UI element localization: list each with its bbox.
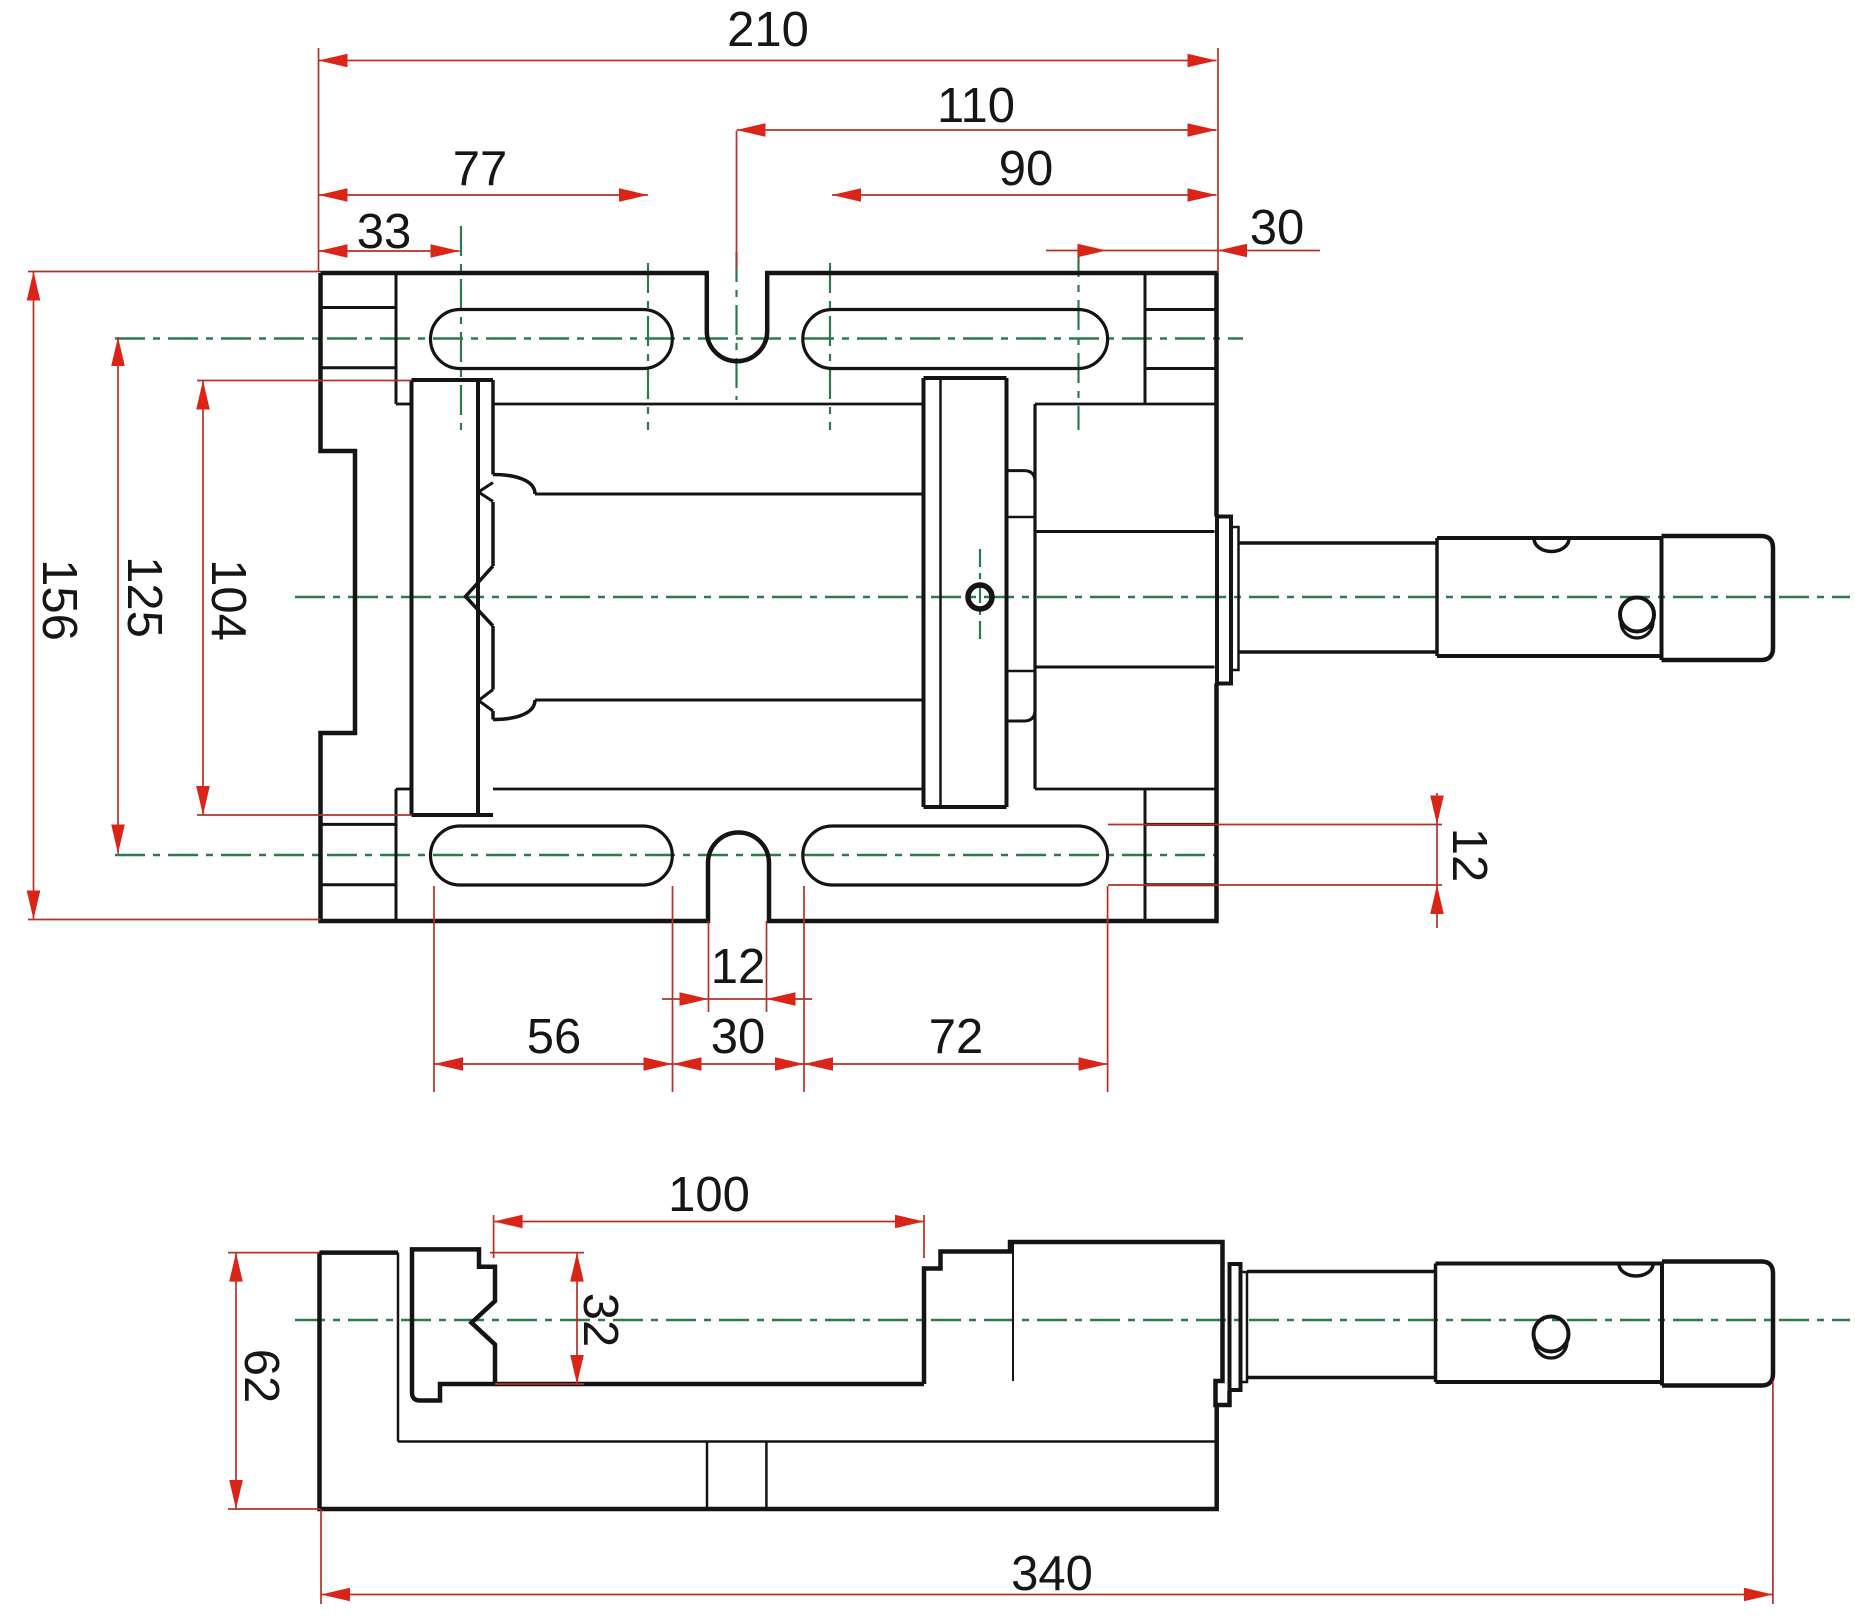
svg-text:30: 30 [1250, 201, 1305, 255]
svg-text:100: 100 [668, 1168, 750, 1222]
svg-text:210: 210 [727, 3, 809, 57]
svg-text:110: 110 [937, 79, 1015, 133]
svg-text:90: 90 [999, 142, 1054, 196]
svg-text:72: 72 [929, 1010, 984, 1064]
svg-text:33: 33 [357, 205, 412, 259]
svg-text:104: 104 [201, 559, 255, 641]
svg-text:125: 125 [117, 556, 171, 638]
svg-text:56: 56 [527, 1010, 582, 1064]
svg-text:77: 77 [453, 142, 508, 196]
svg-text:340: 340 [1011, 1547, 1093, 1601]
svg-text:12: 12 [711, 940, 766, 994]
svg-text:30: 30 [711, 1010, 766, 1064]
svg-text:32: 32 [573, 1293, 627, 1348]
svg-text:12: 12 [1442, 828, 1496, 883]
svg-text:156: 156 [32, 559, 86, 641]
svg-text:62: 62 [234, 1349, 288, 1404]
